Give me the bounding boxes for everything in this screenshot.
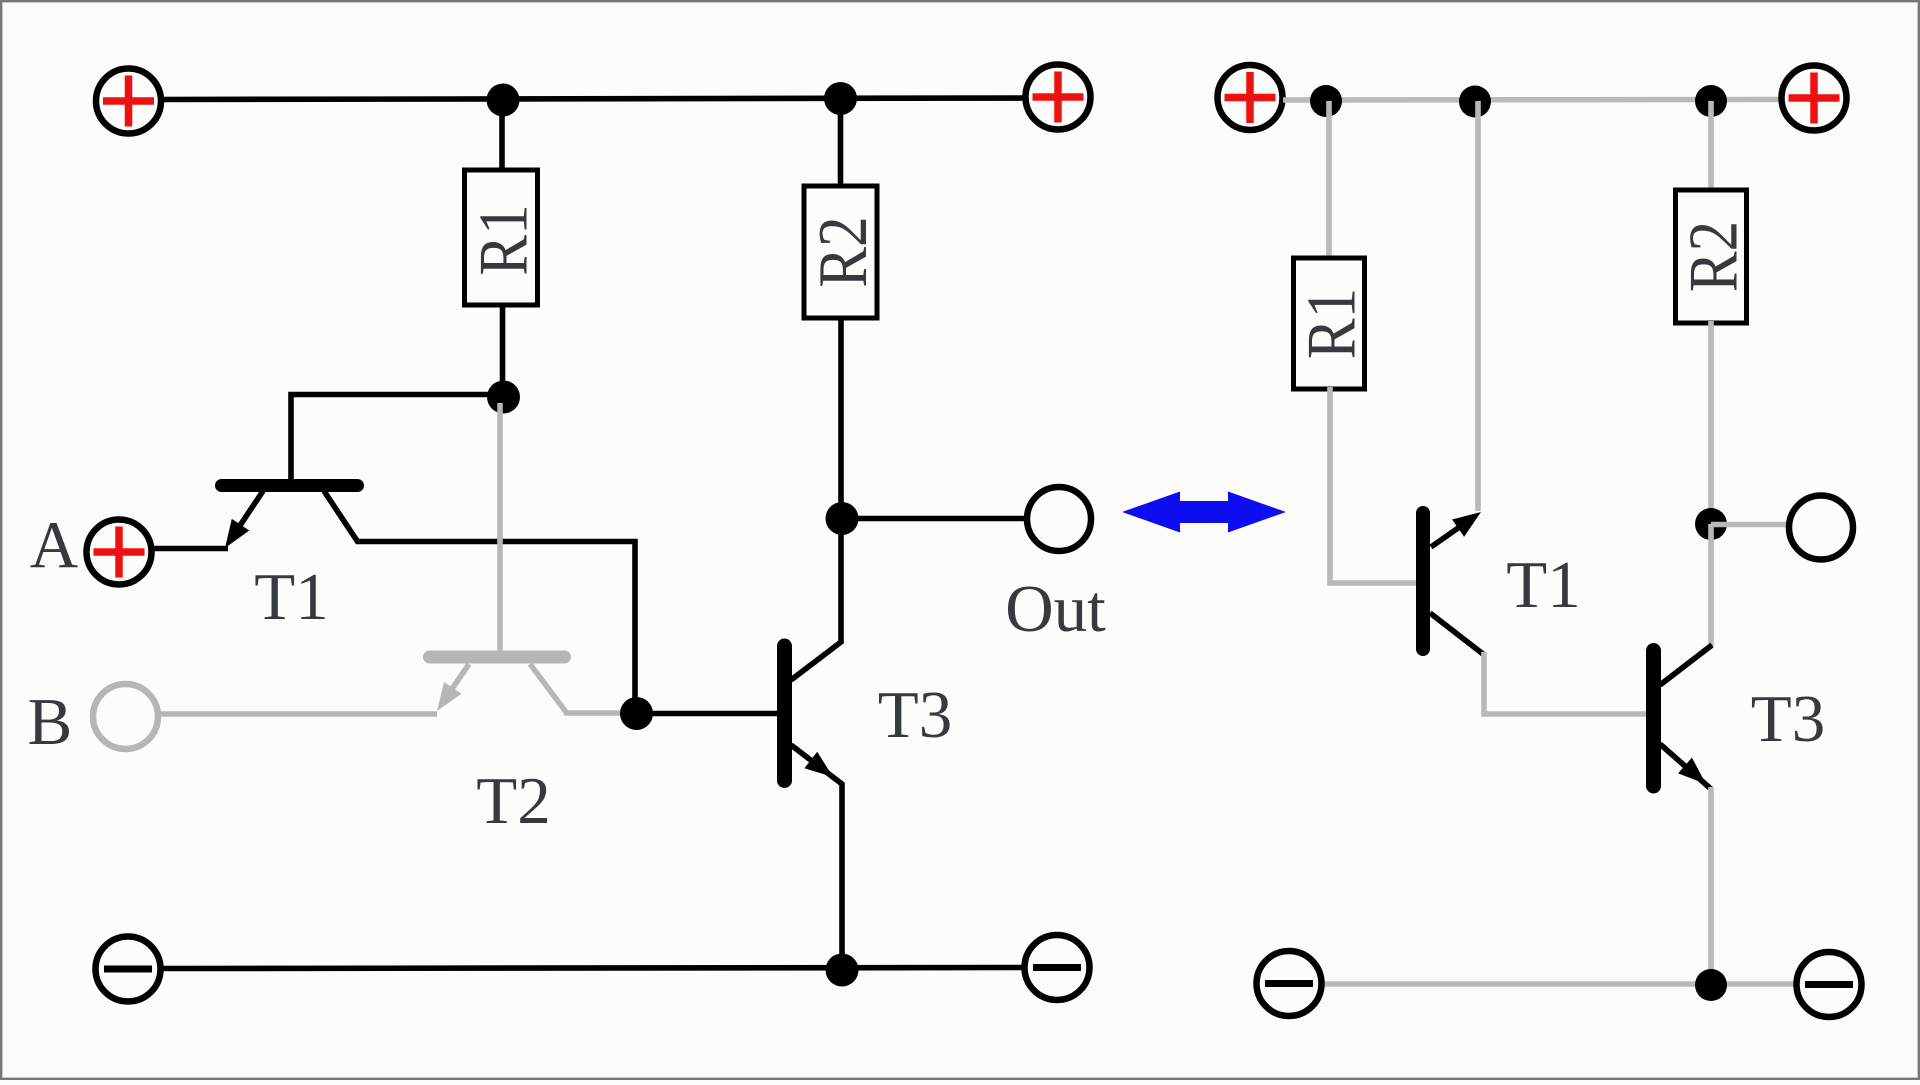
node base T1/T2	[487, 381, 520, 414]
svg-text:R2: R2	[804, 216, 882, 287]
terminal -V right (left circuit)	[1025, 935, 1090, 1000]
wire bottom rail left circuit	[161, 968, 1024, 969]
wire bottom rail right circuit	[1322, 981, 1796, 987]
transistor T1 (right) collector	[1430, 613, 1483, 654]
wire R1 bottom	[500, 303, 506, 397]
transistor T1 collector wire to T2/T3 node	[324, 491, 635, 705]
terminal Out	[1027, 487, 1091, 551]
svg-text:T1: T1	[254, 560, 328, 634]
wire to Out terminal	[842, 516, 1027, 522]
resistor R1 (right)	[1292, 258, 1370, 389]
node top rail / R2	[824, 82, 857, 115]
transistor T3 (right) base bar	[1646, 651, 1661, 787]
terminal -V right (right circuit)	[1797, 952, 1862, 1017]
resistor R2	[804, 186, 882, 318]
terminal +V left (left circuit)	[96, 69, 161, 134]
wire R1 right bottom to T1 base	[1330, 387, 1417, 583]
node bottom rail / T3 emitter	[826, 954, 859, 987]
svg-text:T3: T3	[878, 678, 952, 752]
svg-text:R2: R2	[1674, 221, 1752, 292]
node T1-T2-T3 base	[620, 697, 653, 730]
wire T1 emitter feed (gray)	[1475, 101, 1481, 511]
terminal +V left (right circuit)	[1218, 65, 1283, 130]
resistor R1	[464, 170, 542, 305]
terminal +V right (left circuit)	[1026, 65, 1091, 130]
node rail / R1 right	[1310, 85, 1342, 117]
terminal -V left (right circuit)	[1257, 951, 1322, 1016]
node Out (right)	[1695, 508, 1727, 540]
wire top rail left circuit	[160, 98, 1026, 100]
blue equivalence arrow	[1122, 492, 1286, 533]
wire input A	[152, 546, 228, 552]
terminal A	[87, 520, 152, 585]
node top rail / R1	[487, 84, 520, 117]
wire R1 right top	[1326, 101, 1332, 260]
transistor T1 base bar	[222, 479, 358, 492]
wire T3 emitter to bottom rail (gray)	[1708, 787, 1714, 985]
transistor T3 (right) emitter	[1660, 744, 1711, 789]
wire T1 collector to T3 base (gray)	[1484, 652, 1648, 714]
node bottom rail right	[1695, 969, 1727, 1001]
svg-text:A: A	[30, 508, 78, 582]
wire Out node down to T3 collector (gray)	[1708, 524, 1714, 646]
wire R2 top	[838, 98, 844, 188]
terminal -V left (left circuit)	[96, 937, 161, 1002]
svg-text:Out: Out	[1005, 572, 1106, 646]
transistor T2 emitter (gray)	[437, 664, 469, 711]
transistor T3 (right) collector	[1660, 645, 1712, 685]
transistor T3 base bar	[777, 646, 792, 781]
wire node to T3 base	[636, 711, 779, 717]
transistor T3 collector	[791, 521, 841, 680]
wire to Out terminal (right)	[1711, 522, 1790, 528]
transistor T1 emitter	[225, 491, 263, 548]
transistor T2 collector (gray)	[530, 664, 629, 713]
svg-text:T3: T3	[1751, 682, 1825, 756]
node rail / T1 emitter right	[1459, 86, 1491, 118]
resistor R2 (right)	[1674, 190, 1752, 323]
terminal Out (right)	[1789, 496, 1853, 560]
transistor T2 base bar (gray)	[430, 651, 565, 664]
wire R2 right top	[1708, 101, 1714, 192]
wire base to T1	[291, 395, 503, 482]
transistor T3 emitter	[791, 745, 842, 969]
node rail / R2 right	[1695, 85, 1727, 117]
svg-text:B: B	[28, 685, 73, 759]
node Out	[826, 502, 859, 535]
transistor T1 (right) emitter	[1431, 512, 1481, 547]
svg-text:R1: R1	[464, 204, 542, 275]
svg-text:T1: T1	[1506, 548, 1580, 622]
transistor T2 base wire (gray)	[497, 403, 503, 651]
terminal B (gray)	[93, 684, 158, 749]
svg-text:T2: T2	[476, 764, 550, 838]
wire R2 bottom to Out node	[838, 316, 844, 520]
svg-text:R1: R1	[1292, 288, 1370, 359]
wire input B (gray)	[158, 711, 437, 717]
wire top rail right circuit	[1283, 97, 1782, 103]
wire R2 right bottom to Out node	[1708, 321, 1714, 524]
transistor T1 (right) base bar	[1416, 513, 1430, 649]
wire R1 top	[499, 100, 505, 172]
terminal +V right (right circuit)	[1782, 66, 1847, 131]
